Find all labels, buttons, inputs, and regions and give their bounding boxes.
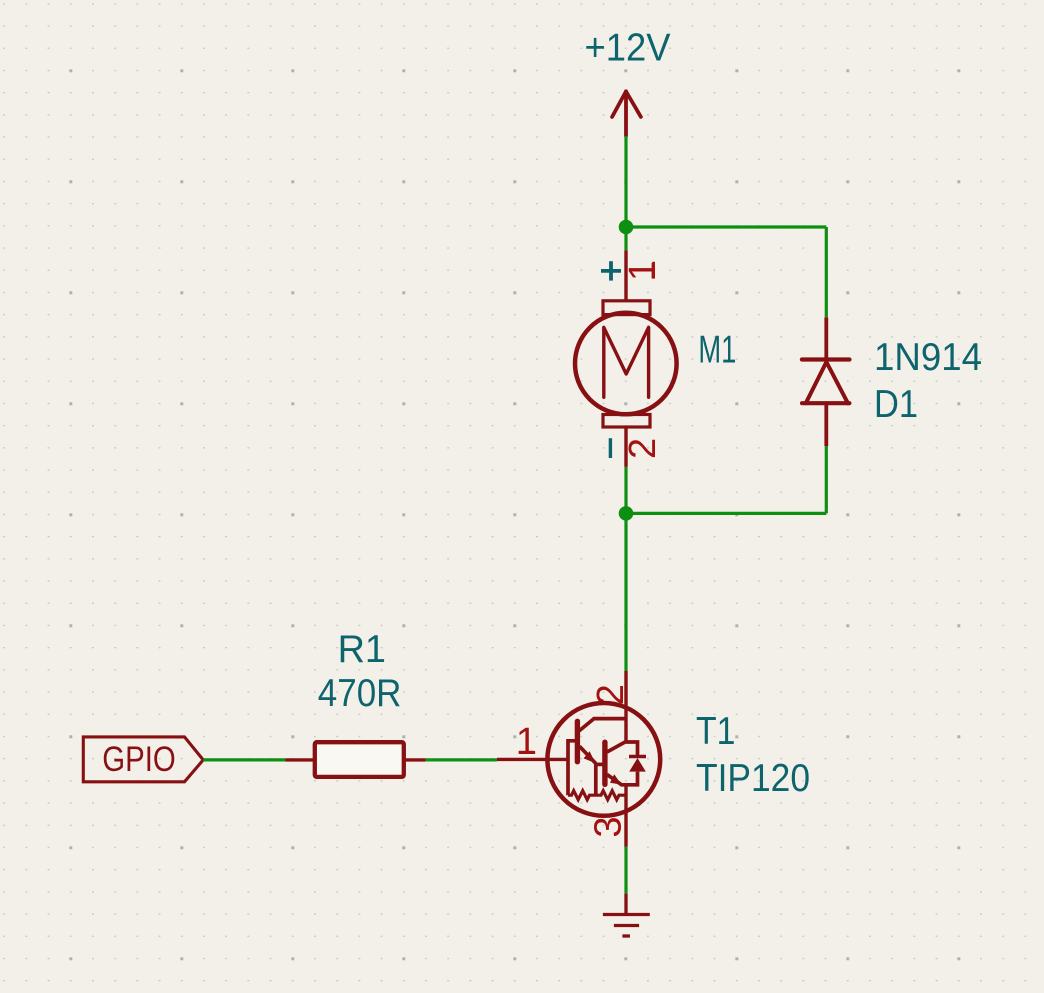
wire GPIO to resistor: [203, 758, 285, 761]
motor M1 pin 2: [624, 427, 627, 467]
wire diode top vertical: [825, 227, 828, 317]
resistor R1 body: [315, 742, 404, 777]
svg-text:M1: M1: [698, 329, 736, 372]
pin name +: [601, 261, 621, 280]
internal diode leads: [626, 742, 638, 757]
q1 emitter diagonal: [580, 746, 596, 763]
q1 emitter drop: [594, 764, 598, 796]
resistor R1 pin right: [405, 758, 426, 761]
q1 emitter arrowhead: [584, 751, 596, 763]
pin name -: [609, 438, 612, 458]
svg-text:1N914: 1N914: [874, 336, 982, 379]
wire motor pin2 to junction: [624, 467, 627, 514]
transistor T1 emitter pin: [624, 785, 627, 847]
svg-text:1: 1: [622, 260, 664, 281]
q1 base bar: [575, 721, 580, 761]
emitter rail with resistors: [568, 791, 626, 800]
ground symbol: [603, 894, 650, 936]
power symbol +12V: [612, 91, 641, 136]
transistor T1 internal drawing: [568, 719, 646, 800]
transistor T1 circle: [547, 703, 660, 816]
svg-text:R1: R1: [338, 628, 386, 671]
motor M1 pin 1: [624, 250, 627, 300]
svg-text:GPIO: GPIO: [102, 739, 176, 779]
q2 base link: [596, 763, 603, 767]
motor M1 body: [575, 301, 677, 427]
svg-text:T1: T1: [696, 710, 735, 753]
wire bottom horizontal diode to junction: [626, 512, 826, 515]
svg-text:D1: D1: [874, 383, 918, 426]
wire diode bottom vertical: [825, 446, 828, 513]
q2 base bar: [602, 742, 607, 784]
svg-text:2: 2: [622, 438, 664, 459]
svg-text:+12V: +12V: [585, 27, 671, 70]
svg-text:470R: 470R: [318, 672, 402, 715]
wire resistor to transistor base: [426, 758, 497, 761]
global label GPIO: [83, 737, 203, 782]
q2 emitter arrowhead: [610, 774, 622, 784]
q2 collector diagonal: [607, 742, 626, 753]
wire +12V vertical: [624, 136, 627, 227]
resistor R1 pin left: [286, 758, 315, 761]
internal diode triangle: [629, 758, 646, 772]
svg-text:1: 1: [516, 721, 537, 763]
q2 emitter diagonal: [607, 775, 626, 785]
svg-text:3: 3: [587, 816, 629, 837]
base link: [568, 741, 576, 795]
wire emitter to ground: [624, 847, 627, 894]
junction node bottom: [619, 506, 634, 521]
diode D1 pin top: [824, 317, 828, 359]
transistor T1 collector pin: [624, 671, 627, 742]
wire top horizontal to diode: [626, 225, 826, 228]
wire junction to collector: [624, 513, 627, 671]
svg-text:TIP120: TIP120: [696, 757, 810, 800]
junction node top: [619, 220, 634, 235]
wire motor pin1 stub: [624, 227, 627, 250]
q1 collector line: [579, 719, 626, 731]
diode D1 body: [802, 360, 850, 404]
transistor T1 base pin: [497, 758, 568, 761]
diode D1 pin bottom: [824, 403, 828, 446]
